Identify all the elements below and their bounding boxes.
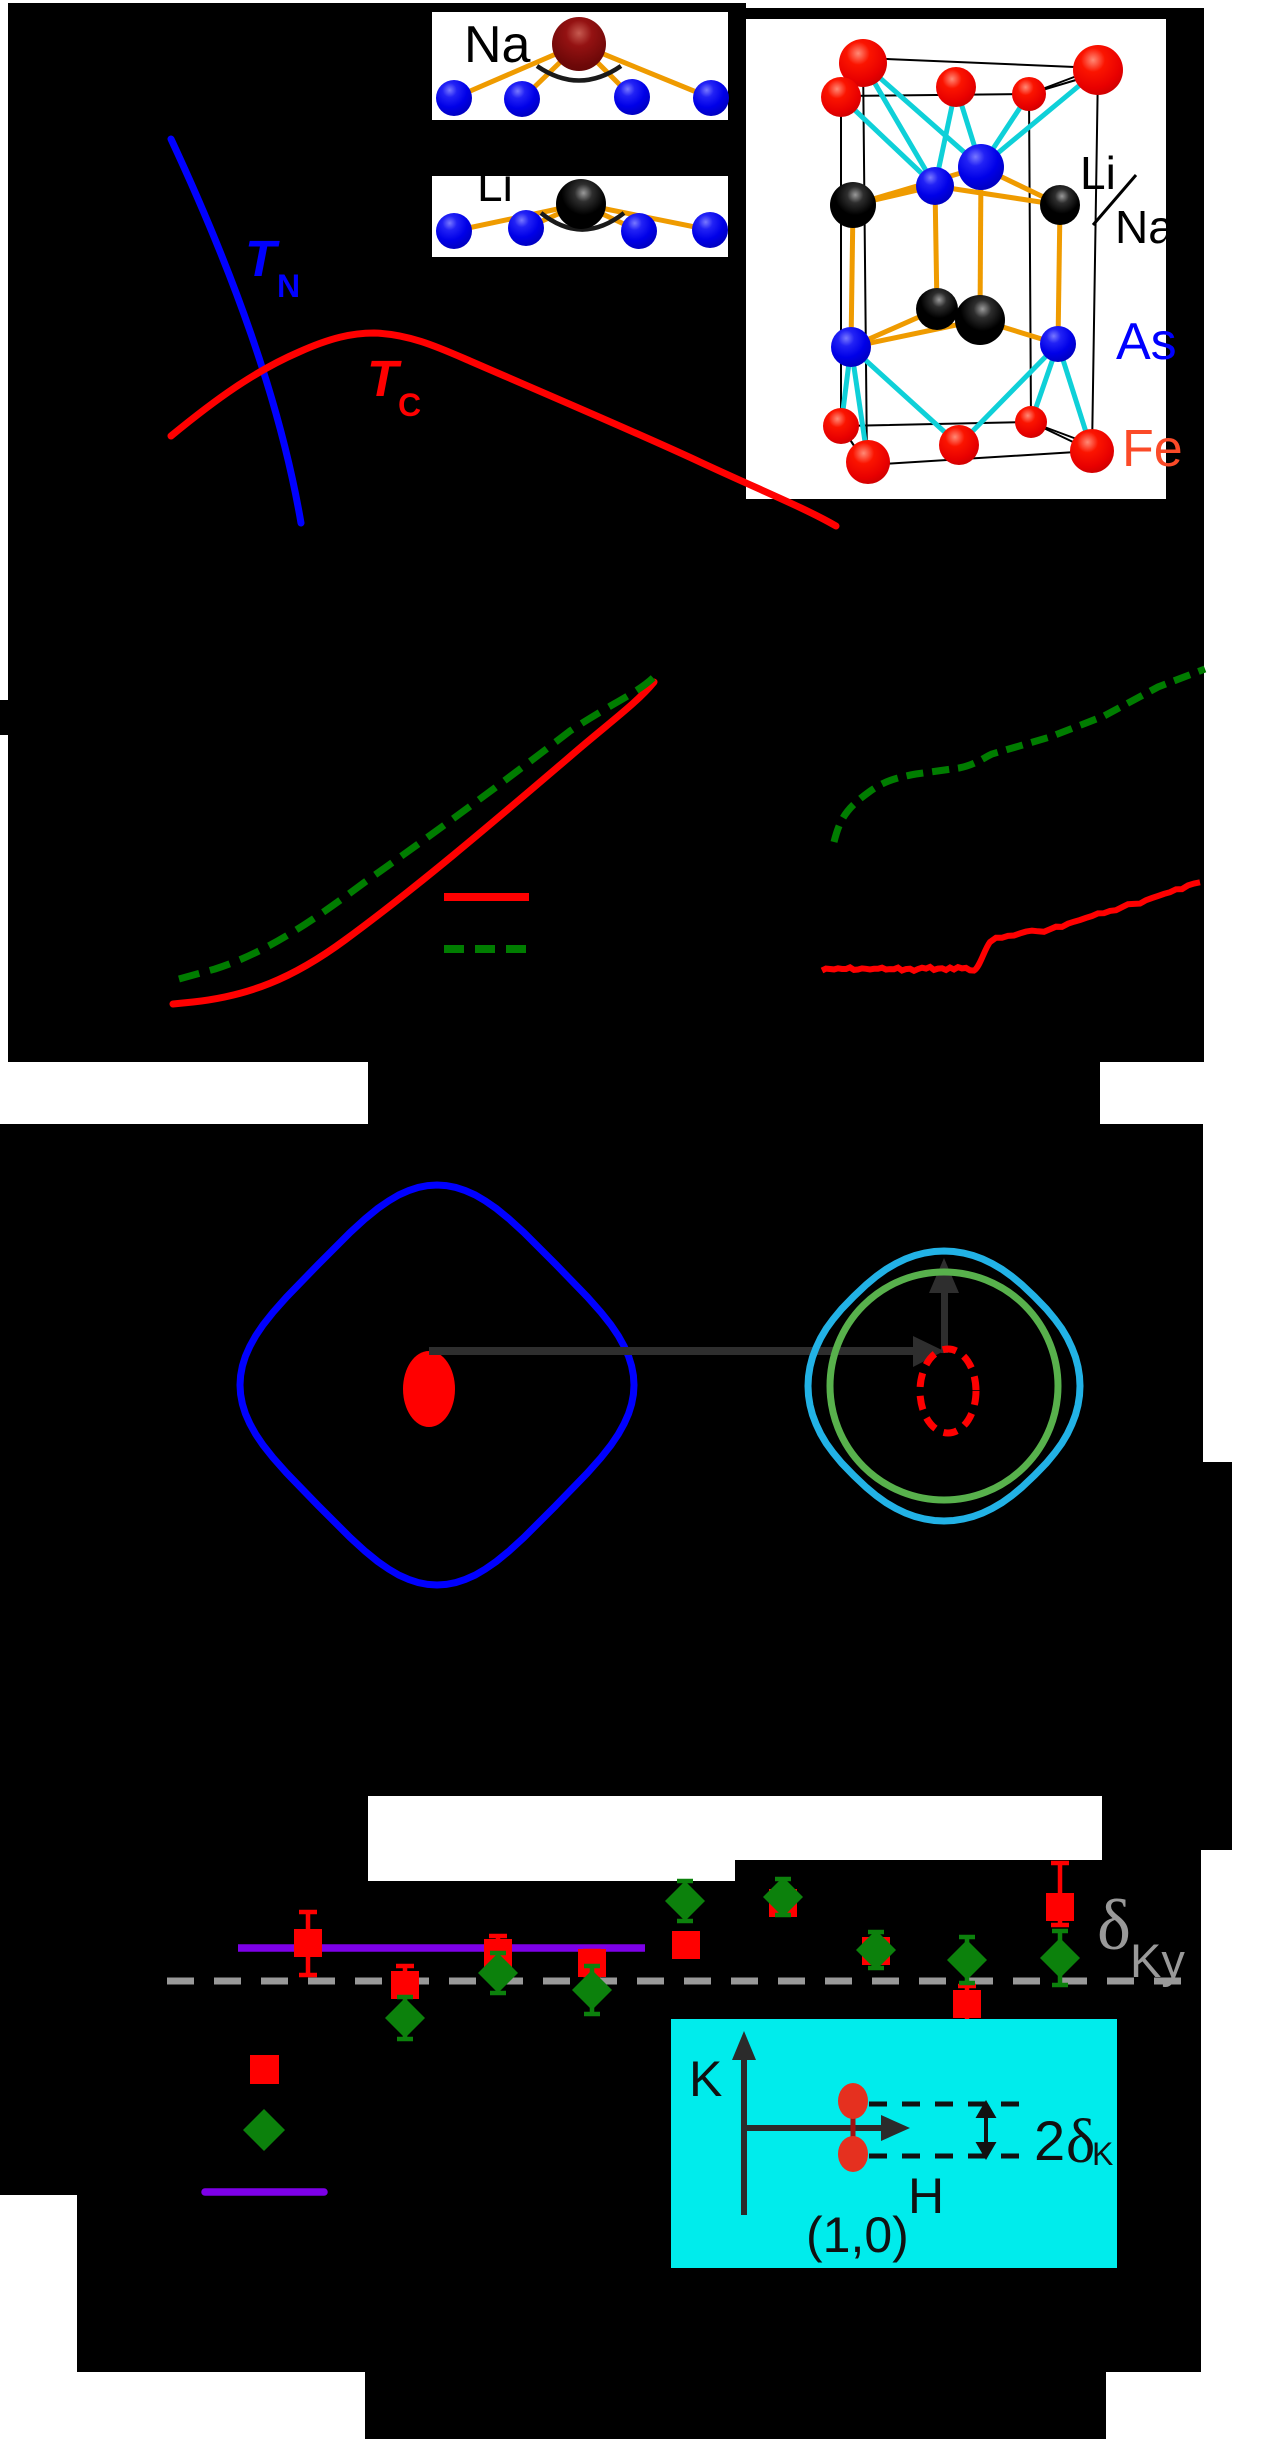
crystal: As spheres bbox=[831, 144, 1076, 367]
inset Na: Na sphere bbox=[552, 17, 606, 71]
panel e background (delta plot) bbox=[0, 1830, 1201, 2439]
panel d: gray nesting arrow horizontal bbox=[429, 1336, 944, 1367]
panel e: red square data points bbox=[294, 1863, 1074, 2023]
svg-text:K: K bbox=[1092, 2136, 1113, 2172]
panel b: green dashed curve bbox=[179, 676, 655, 979]
svg-text:Li: Li bbox=[1080, 147, 1116, 199]
inset: double arrow 2delta bbox=[979, 2104, 993, 2156]
svg-text:Na: Na bbox=[1115, 201, 1174, 253]
panel d background (Fermi surfaces) bbox=[0, 1062, 1232, 1850]
inset Li: white box bbox=[432, 176, 728, 257]
svg-text:K: K bbox=[689, 2051, 722, 2107]
inset: K axis bbox=[732, 2031, 756, 2215]
crystal: label As bbox=[1116, 313, 1177, 371]
panel d: green circle bbox=[830, 1272, 1058, 1500]
inset Na: angle arc bbox=[537, 66, 621, 81]
panel e: label delta_Ky bbox=[1097, 1885, 1185, 1987]
inset: H axis bbox=[744, 2115, 910, 2141]
panel a background (phase diagram, transparent->black) bbox=[0, 3, 1204, 1062]
panel e: legend purple line bbox=[205, 2188, 324, 2196]
svg-text:δ: δ bbox=[1097, 1885, 1131, 1965]
curve T_N (blue) bbox=[171, 139, 301, 523]
panel b: legend red line bbox=[444, 893, 529, 901]
crystal: white box bbox=[746, 19, 1166, 499]
inset: label H bbox=[908, 2168, 944, 2224]
inset Na: As spheres bbox=[436, 79, 729, 117]
inset Li: Li sphere bbox=[556, 179, 606, 229]
label T_C bbox=[367, 350, 421, 423]
panel c: red resistivity curve bbox=[822, 882, 1200, 971]
panel d: blue squircle Fermi surface bbox=[240, 1185, 634, 1585]
panel b: legend green dashed line bbox=[444, 945, 529, 953]
crystal: orange bonds bbox=[851, 167, 1060, 347]
inset: label (1,0) bbox=[806, 2207, 909, 2263]
svg-text:As: As bbox=[1116, 313, 1177, 371]
inset Li: bonds bbox=[454, 204, 710, 231]
svg-text:T: T bbox=[367, 350, 402, 407]
crystal: cyan bonds bbox=[841, 63, 1098, 462]
crystal: cell frame bbox=[836, 58, 1098, 465]
inset: label K bbox=[689, 2051, 722, 2107]
panel d: red ellipse pocket bbox=[403, 1351, 455, 1427]
inset Li: label Li (clipped) bbox=[477, 159, 513, 211]
svg-text:Fe: Fe bbox=[1122, 420, 1183, 478]
inset: black dashed lines bbox=[869, 2104, 1025, 2156]
svg-text:N: N bbox=[277, 268, 300, 304]
inset: incommensurate peaks red ellipses bbox=[838, 2083, 868, 2172]
svg-text:Ky: Ky bbox=[1130, 1934, 1185, 1987]
label T_N bbox=[245, 230, 300, 304]
panel d: cyan squircle bbox=[808, 1251, 1080, 1521]
curve T_C (red) bbox=[171, 333, 836, 526]
svg-text:T: T bbox=[245, 230, 280, 287]
crystal: Li/Na spheres bbox=[830, 182, 1080, 345]
white canvas gap above panel e bbox=[368, 1796, 1102, 1881]
crystal: label Fe bbox=[1122, 420, 1183, 478]
inset Na: label Na bbox=[464, 16, 531, 74]
svg-text:(1,0): (1,0) bbox=[806, 2207, 909, 2263]
panel b: red magnetization curve bbox=[173, 682, 654, 1004]
svg-text:Na: Na bbox=[464, 16, 531, 74]
panel e: gray dashed line bbox=[167, 1978, 1198, 1985]
crystal: label Li/Na bbox=[1080, 147, 1174, 253]
panel e: legend green diamond bbox=[243, 2109, 285, 2151]
panel e: legend red square bbox=[250, 2055, 279, 2084]
inset (1,0): cyan box bbox=[671, 2019, 1117, 2268]
inset Li: clipped angle text at bottom bbox=[522, 249, 650, 298]
inset Li: angle arc bbox=[541, 213, 624, 230]
svg-text:H: H bbox=[908, 2168, 944, 2224]
svg-text:δ: δ bbox=[1066, 2108, 1095, 2176]
inset Na: white box bbox=[432, 0, 1204, 120]
inset Na: bonds bbox=[454, 44, 711, 99]
svg-text:2: 2 bbox=[1034, 2109, 1065, 2172]
panel e: green diamond data points bbox=[385, 1877, 1080, 2039]
panel e: purple line bbox=[238, 1944, 645, 1952]
svg-text:C: C bbox=[398, 387, 421, 423]
inset Li: As spheres bbox=[436, 210, 728, 249]
inset: label 2delta_K bbox=[1034, 2108, 1113, 2176]
panel c: green dashed resistivity curve bbox=[834, 669, 1205, 842]
crystal: Fe spheres top bbox=[821, 39, 1123, 117]
panel d: gray arrow vertical bbox=[929, 1258, 959, 1353]
panel d: red dashed ellipse bbox=[920, 1349, 976, 1433]
crystal: Fe spheres bottom bbox=[823, 406, 1114, 484]
